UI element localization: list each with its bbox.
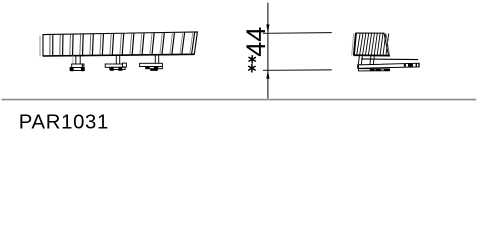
bench end view: near leg strut	[358, 56, 362, 65]
dimension text asterisk 1	[249, 56, 255, 63]
bench front view: right leg foot plate	[140, 63, 163, 68]
bench end view: first slat thick edge	[354, 33, 356, 55]
svg-text:44: 44	[241, 27, 271, 57]
bench front view: seat strip thick bottom edge	[43, 54, 194, 56]
bench end view: seat end face second edge	[386, 34, 389, 55]
bench end view: foot base plate	[358, 69, 389, 71]
bench end view: upper frame tube line	[361, 58, 418, 61]
bench end view: far leg strut	[370, 56, 375, 65]
bench end view: rail left end cap	[357, 65, 359, 69]
bench front view: left leg post	[76, 55, 80, 64]
bench end view: panel thick bottom edge	[354, 54, 390, 56]
bench front view: right leg anchor bolts	[146, 67, 158, 71]
bench front view: seat slat strip outline	[43, 32, 197, 56]
bench front view: middle leg post	[116, 55, 119, 64]
bench end view: rail right end cap line	[418, 63, 420, 67]
dimension bottom extension line	[263, 69, 332, 71]
dimension vertical line	[267, 3, 269, 99]
bench front view: left leg anchor bolts	[70, 68, 84, 72]
bench front view: middle leg foot plate	[105, 63, 126, 69]
bench end view: bottom rail	[358, 63, 420, 68]
bench front view: left leg foot plate	[70, 64, 84, 71]
bench front view: slat gap lines	[50, 32, 195, 55]
dimension top extension line	[263, 32, 332, 35]
dimension bottom arrowhead	[266, 70, 269, 79]
bench end view: slat hatch lines	[357, 33, 389, 55]
dimension top arrowhead	[266, 24, 269, 33]
title block separator line	[2, 99, 477, 101]
bench front view: middle leg anchor bolts	[110, 68, 122, 71]
bench end view: faint far edge line	[352, 33, 354, 55]
svg-text:PAR1031: PAR1031	[19, 112, 109, 134]
bench end view: seat slat panel outline	[354, 33, 389, 56]
bench end view: foot bolt blobs	[370, 68, 390, 71]
bench end view: rail tick marks	[404, 64, 417, 67]
dimension text asterisk 2	[249, 65, 255, 72]
bench front view: faint far end-cap line	[39, 36, 41, 57]
bench front view: right leg post	[155, 54, 158, 63]
